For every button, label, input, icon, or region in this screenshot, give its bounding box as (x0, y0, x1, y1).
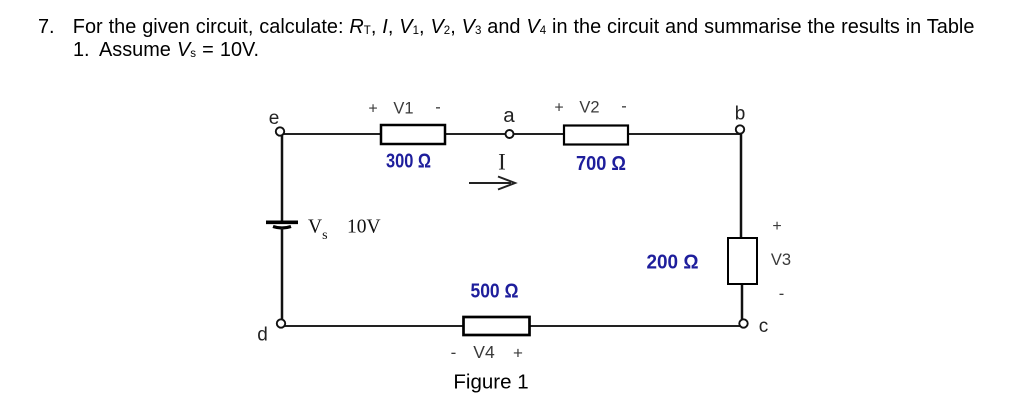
node e circle (276, 127, 284, 135)
svg-text:a: a (503, 104, 515, 127)
node c circle (739, 319, 747, 327)
battery Vs short plate (273, 227, 291, 229)
svg-text:-: - (435, 99, 441, 117)
svg-text:V2: V2 (579, 99, 599, 117)
resistor R2 700 ohm box (564, 126, 628, 145)
svg-text:+: + (368, 101, 377, 118)
svg-text:-: - (621, 98, 627, 116)
wire: right vertical lower, R3 down to node c (741, 282, 744, 326)
battery Vs long plate (266, 221, 298, 225)
svg-text:700 Ω: 700 Ω (576, 152, 626, 175)
svg-text:Vs 10V: Vs 10V (308, 217, 381, 244)
node a circle (506, 130, 514, 138)
current arrow shaft (469, 182, 511, 184)
svg-text:V4: V4 (473, 342, 495, 362)
svg-text:d: d (257, 325, 268, 346)
svg-text:+: + (772, 218, 781, 235)
svg-text:I: I (498, 150, 506, 175)
svg-text:200 Ω: 200 Ω (647, 250, 699, 273)
svg-text:V3: V3 (771, 251, 791, 269)
svg-text:c: c (759, 316, 769, 337)
svg-text:+: + (513, 344, 523, 363)
svg-text:Figure 1: Figure 1 (453, 371, 528, 394)
wire: left vertical lower, battery down to node d (281, 228, 284, 326)
svg-text:b: b (735, 104, 746, 125)
node b circle (736, 125, 744, 133)
node d circle (277, 319, 285, 327)
resistor R3 200 ohm box (728, 238, 757, 284)
wire: left vertical upper, node e down to battery (281, 134, 284, 221)
wire: right vertical upper, node b down to R3 (740, 134, 743, 240)
svg-text:e: e (269, 108, 280, 129)
svg-text:-: - (451, 343, 457, 362)
svg-text:+: + (554, 100, 563, 117)
svg-text:V1: V1 (393, 100, 413, 118)
problem statement line 2 (73, 39, 90, 62)
problem statement line 1 (38, 16, 55, 39)
svg-text:500 Ω: 500 Ω (471, 280, 519, 303)
current arrow head (498, 177, 515, 190)
wire: bottom horizontal from node d to node c (282, 325, 743, 327)
resistor R4 500 ohm box (464, 317, 530, 335)
svg-text:300 Ω: 300 Ω (386, 150, 431, 173)
resistor R1 300 ohm box (381, 125, 445, 144)
wire: top horizontal from node e to node b (282, 133, 741, 135)
svg-text:-: - (779, 285, 785, 303)
